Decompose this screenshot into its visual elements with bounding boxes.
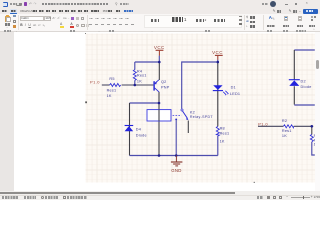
purple save icon: [24, 2, 28, 6]
resistor R8: [216, 126, 219, 136]
right account area: [262, 3, 268, 5]
svg-text:Res1: Res1: [282, 129, 292, 133]
ribbon: [0, 14, 320, 32]
svg-text:Q2: Q2: [161, 80, 167, 84]
wire relay throw 1 to ground net: [175, 120, 177, 155]
group labels row: [4, 30, 12, 32]
svg-text:D2: D2: [301, 80, 306, 84]
junction R4 / Q2 base: [134, 84, 137, 87]
relay K2 actuator dashed link: [173, 114, 182, 116]
svg-text:VCC: VCC: [154, 45, 165, 50]
wire bottom ground net: [130, 155, 218, 157]
svg-text:D1: D1: [231, 86, 236, 90]
wire LED chain vertical: [217, 62, 219, 126]
comments / editing / share: [273, 10, 276, 13]
status bar: [0, 195, 320, 200]
wire R8 to bottom net: [217, 136, 219, 156]
junction collector / bottom net: [158, 154, 161, 157]
undo redo glyphs: [29, 3, 32, 6]
wire top right to D2: [294, 49, 315, 51]
font group: [20, 16, 44, 21]
wire P1.0 to R2: [258, 125, 283, 127]
resistor R5: [110, 84, 121, 87]
avatar: [270, 1, 276, 7]
wire D4 vertical branch: [129, 103, 131, 156]
wire R1 top lead: [311, 126, 313, 134]
tab row: [0, 8, 320, 14]
left outside-page strip: [0, 32, 14, 191]
svg-text:P1.0: P1.0: [258, 121, 268, 126]
wire R1 bottom to right edge: [312, 142, 315, 155]
resistor R2: [283, 125, 293, 128]
svg-text:Res1: Res1: [220, 132, 230, 136]
relay K2 coil: [147, 110, 171, 121]
resistor R4: [133, 70, 136, 81]
word logo: [3, 2, 8, 7]
highlight pen yellow: [60, 23, 62, 26]
separator: [17, 15, 20, 29]
title text: [42, 3, 108, 5]
wire R4 bottom lead: [134, 80, 136, 85]
vertical scrollbar: [315, 32, 320, 191]
row2 font glyphs: [20, 24, 22, 27]
paragraph group: two rows of small icon bars: [89, 17, 129, 20]
junction VCC rail / LED chain: [217, 61, 220, 64]
wire VCC rail to R4 top: [135, 61, 160, 63]
autosave toggle: [16, 3, 21, 6]
svg-text:R5: R5: [109, 77, 114, 81]
horizontal scrollbar: [0, 191, 320, 194]
document area: [0, 32, 320, 191]
gallery scroll arrows: [239, 16, 242, 17]
right side: [257, 196, 263, 199]
wire R4 top lead: [134, 62, 136, 70]
wire R5 to Q2 base: [122, 84, 154, 86]
wire R2 to node: [294, 125, 314, 127]
wire D2 anode lead: [293, 86, 295, 104]
svg-text:P1.0: P1.0: [90, 80, 100, 85]
ground GND: [171, 156, 183, 166]
paste button: [5, 16, 10, 22]
diode D2: [289, 79, 300, 81]
title bar: [0, 0, 320, 8]
svg-text:Res1: Res1: [137, 74, 147, 78]
separator: [86, 15, 89, 29]
styles gallery: [144, 15, 242, 28]
svg-text:D4: D4: [136, 128, 141, 132]
svg-text:R8: R8: [220, 126, 225, 130]
svg-text:VCC: VCC: [212, 50, 223, 55]
separator: [243, 15, 246, 29]
relay K2 throw contact: [175, 118, 177, 120]
right big buttons: [269, 16, 272, 19]
wire D2 bottom to right edge: [294, 104, 315, 106]
selected Home tab pill: [10, 9, 18, 14]
wire VCC2 stub to rail: [217, 60, 219, 62]
power port VCC 2: [215, 55, 223, 59]
editing group: [246, 16, 248, 19]
wire VCC rail to relay common: [182, 62, 218, 109]
transistor Q2 emitter arrow: [154, 81, 157, 84]
schematic image: [85, 33, 315, 183]
relay K2 lever: [183, 111, 188, 119]
misc row1 icons x58-88: [63, 17, 67, 20]
diode D4: [125, 125, 134, 127]
svg-text:1K: 1K: [137, 80, 142, 84]
transistor Q2: [154, 80, 159, 92]
svg-text:Relay-SPDT: Relay-SPDT: [190, 115, 213, 119]
svg-text:PNP: PNP: [161, 85, 170, 89]
power port VCC 1: [156, 50, 164, 55]
cut / copy / painter: [13, 15, 16, 17]
wire VCC1 stub to rail: [158, 56, 160, 62]
search: [115, 3, 117, 6]
svg-text:Res1: Res1: [107, 89, 117, 93]
wire Q2 emitter feed: [158, 62, 160, 80]
wire collector branch to D4: [130, 102, 160, 104]
svg-text:1K: 1K: [107, 94, 112, 98]
svg-text:1K: 1K: [220, 140, 225, 144]
wire D2 cathode lead: [293, 50, 295, 79]
font color red A: [70, 23, 72, 26]
junction collector / D4 branch: [158, 102, 161, 105]
led D1: [213, 85, 222, 90]
svg-text:K2: K2: [190, 111, 195, 115]
autosave label: [10, 3, 22, 5]
svg-text:GND: GND: [171, 168, 181, 173]
window buttons: [285, 3, 288, 6]
svg-text:1K: 1K: [282, 134, 287, 138]
wire Q2 collector down to bottom net: [158, 92, 160, 156]
wire P1.0 to R5: [102, 84, 110, 86]
svg-text:R2: R2: [282, 119, 287, 123]
junction ground / bottom net: [175, 154, 178, 157]
resistor R1 (clipped at page edge): [310, 134, 313, 142]
svg-text:LED1: LED1: [230, 92, 240, 96]
svg-text:Diode: Diode: [301, 85, 312, 89]
svg-text:Diode: Diode: [136, 134, 147, 138]
junction R2 / R1 branch: [311, 125, 314, 128]
junction VCC rail / R4: [158, 61, 161, 64]
wire relay throw 2 stub: [187, 121, 189, 133]
relay K2 common contact: [181, 109, 183, 111]
tab labels: [2, 10, 6, 12]
